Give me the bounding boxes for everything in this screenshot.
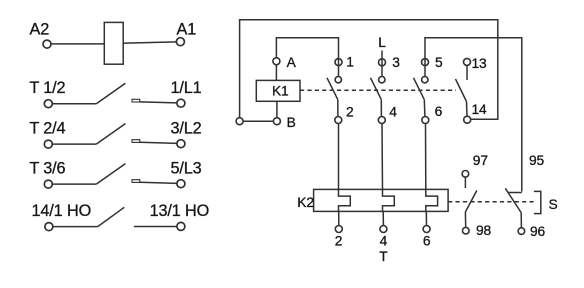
svg-text:95: 95 <box>529 153 545 168</box>
svg-text:14: 14 <box>472 102 488 117</box>
wire B to coil K1 <box>276 101 278 117</box>
wire pole1 down to K2 <box>338 124 340 190</box>
terminal 14/1 <box>45 223 53 231</box>
svg-text:T: T <box>379 249 388 264</box>
svg-text:4: 4 <box>380 233 388 248</box>
svg-text:13: 13 <box>472 56 488 71</box>
fixed contact rect row2 <box>132 99 140 102</box>
svg-text:A1: A1 <box>177 20 197 38</box>
wire T2/4 <box>52 143 96 145</box>
terminal A <box>273 58 280 65</box>
svg-text:A2: A2 <box>30 20 50 38</box>
svg-text:98: 98 <box>476 223 492 238</box>
blade pole3 <box>414 78 425 100</box>
wire to terminal 2 (bottom) <box>338 211 340 225</box>
heater element pole3 <box>426 189 438 211</box>
svg-text:K2: K2 <box>297 195 314 210</box>
terminal 98 <box>463 227 470 234</box>
wire 14/1 <box>53 226 98 228</box>
wire coil to A <box>275 65 277 81</box>
wire blade to 98 <box>464 212 466 227</box>
terminal 5/L3 <box>177 180 185 188</box>
NC seat 95 <box>508 192 522 194</box>
svg-text:14/1 HO: 14/1 HO <box>32 202 92 220</box>
wire contact 5 up and over to NC 95 <box>425 38 522 192</box>
terminal 14 <box>464 116 471 123</box>
fixed contact pole3 <box>422 77 428 83</box>
wire to 3/L2 <box>140 142 177 143</box>
terminal T1/2 <box>44 100 52 108</box>
wire blade to terminal 6 <box>423 100 426 117</box>
svg-text:2: 2 <box>335 233 343 248</box>
terminal T2/4 <box>44 140 52 148</box>
wire to terminal 4 (bottom) <box>382 211 384 225</box>
svg-text:5: 5 <box>435 55 443 70</box>
svg-text:B: B <box>287 115 296 130</box>
wire blade to 14 <box>466 102 469 117</box>
wire A2 to coil <box>51 43 104 45</box>
svg-text:5/L3: 5/L3 <box>171 160 202 178</box>
terminal 2 (bottom) <box>335 226 342 233</box>
blade NO 97-98 <box>465 191 476 213</box>
coil K (left symbol) <box>104 22 123 64</box>
wire L to contact 3 <box>381 51 383 77</box>
svg-text:L: L <box>378 35 386 50</box>
wire T1/2 <box>52 103 96 105</box>
svg-text:1: 1 <box>346 55 354 70</box>
terminal A1 <box>176 38 184 46</box>
wire pole3 down to K2 <box>425 124 427 190</box>
dashed actuator line K1 <box>300 89 456 91</box>
terminal 3 <box>379 59 386 66</box>
terminal 5 <box>422 59 429 66</box>
svg-text:96: 96 <box>530 224 546 239</box>
wire to 1/L1 <box>140 102 177 103</box>
terminal 4 (bottom) <box>380 226 387 233</box>
wire stub below 97 <box>464 177 466 188</box>
terminal B <box>273 118 280 125</box>
switch blade row3 <box>96 124 125 145</box>
svg-text:S: S <box>549 197 558 212</box>
coil K1 <box>256 80 300 101</box>
blade NC 95-96 <box>505 188 521 212</box>
svg-text:K1: K1 <box>272 83 289 98</box>
fixed contact rect row3 <box>132 140 140 143</box>
terminal 2 (mid) <box>335 117 342 124</box>
wire blade to terminal 4 <box>380 100 382 117</box>
wire A up and over to contact 1 <box>276 38 338 76</box>
switch blade row5 <box>98 207 125 226</box>
wire to 5/L3 <box>140 182 177 183</box>
terminal 6 (mid) <box>422 117 429 124</box>
svg-text:3: 3 <box>392 55 400 70</box>
svg-text:2: 2 <box>346 104 354 119</box>
svg-text:6: 6 <box>423 233 431 248</box>
wire node to B <box>243 120 273 122</box>
wire stub below 13 <box>466 65 468 80</box>
heater element pole1 <box>339 189 351 211</box>
fixed contact pole1 <box>335 77 341 83</box>
wire to 13/1 <box>134 226 177 228</box>
switch blade row2 <box>96 83 125 104</box>
wire outer loop (left terminal up, across top, down to contact 14) <box>240 20 498 120</box>
terminal node (unlabeled, bottom left) <box>236 118 243 125</box>
svg-text:T 3/6: T 3/6 <box>29 160 65 178</box>
bracket S <box>534 191 541 213</box>
svg-text:1/L1: 1/L1 <box>171 79 202 97</box>
fixed contact rect row4 <box>132 180 140 183</box>
svg-text:6: 6 <box>435 104 443 119</box>
svg-text:97: 97 <box>473 153 488 168</box>
terminal 96 <box>518 228 525 235</box>
fixed contact pole2 <box>379 77 385 83</box>
wire T3/6 <box>52 183 96 185</box>
relay K2 box <box>314 189 449 211</box>
blade pole2 <box>371 78 382 100</box>
wire coil to A1 <box>123 42 176 43</box>
switch blade row4 <box>96 164 125 185</box>
terminal 13 <box>464 58 471 65</box>
wire pole2 down to K2 <box>381 124 384 190</box>
terminal 1 <box>335 59 342 66</box>
svg-text:13/1 HO: 13/1 HO <box>150 202 210 220</box>
svg-text:T 2/4: T 2/4 <box>29 120 65 138</box>
terminal 97 <box>462 171 469 178</box>
terminal T3/6 <box>44 180 52 188</box>
svg-text:3/L2: 3/L2 <box>171 120 202 138</box>
svg-text:4: 4 <box>389 104 397 119</box>
heater element pole2 <box>383 189 395 211</box>
dashed actuator line K2 <box>448 201 536 203</box>
terminal 6 (bottom) <box>423 226 430 233</box>
terminal 4 (mid) <box>378 117 385 124</box>
wire blade to 96 <box>520 213 522 228</box>
terminal A2 <box>43 40 51 48</box>
terminal 1/L1 <box>177 99 185 107</box>
blade aux 13-14 <box>456 79 467 102</box>
svg-text:A: A <box>287 55 297 70</box>
blade pole1 <box>327 78 338 100</box>
wire to terminal 6 (bottom) <box>425 211 427 225</box>
terminal 3/L2 <box>177 140 185 148</box>
terminal 13/1 <box>177 222 185 230</box>
wire blade to terminal 2 <box>337 100 339 117</box>
svg-text:T 1/2: T 1/2 <box>29 79 65 97</box>
